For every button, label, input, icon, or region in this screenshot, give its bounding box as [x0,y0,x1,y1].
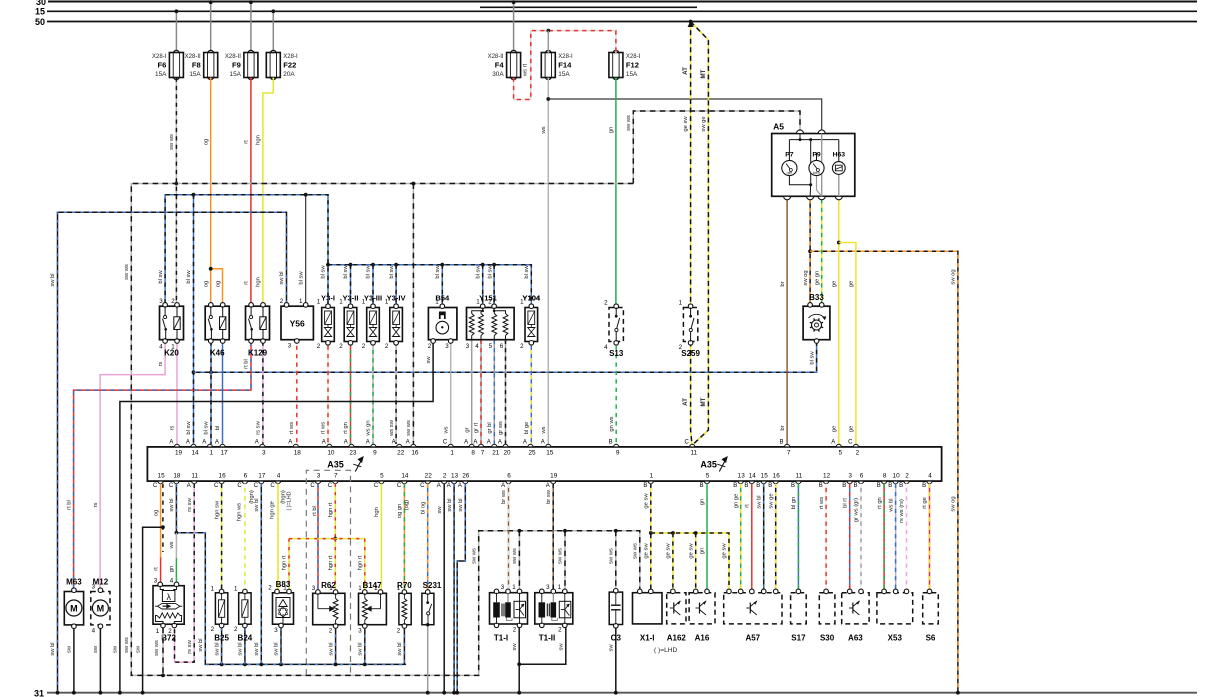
wire rs K20 pin1 to A19 [176,342,178,444]
junction F9/30 [249,0,253,4]
junction A13 31 [452,691,456,695]
svg-text:X28-I: X28-I [558,54,573,60]
svg-text:ge sw: ge sw [666,543,672,559]
wire gn from F12 to S13 [615,78,617,304]
svg-text:13: 13 [451,472,459,479]
svg-text:sw: sw [437,506,443,514]
svg-text:sw bl: sw bl [358,642,364,655]
svg-text:3: 3 [445,343,449,350]
svg-text:B: B [854,483,858,489]
svg-text:C: C [214,483,219,489]
svg-text:hgn rt: hgn rt [358,555,364,570]
wire hgn from F22 to K129 [263,78,273,304]
svg-text:4: 4 [475,343,479,350]
junction sw og at 31 [956,691,960,695]
junction busB B54 [440,263,444,267]
svg-text:4: 4 [604,344,608,351]
wire sw bl B25 pin2 [221,628,223,665]
svg-text:15A: 15A [558,71,570,78]
svg-text:A5: A5 [773,122,784,132]
svg-text:C: C [443,439,448,445]
svg-text:2: 2 [558,627,562,634]
junction sw bl net [220,663,224,667]
junction T1 31 [517,691,521,695]
wire sw T1 grounds [519,625,566,664]
svg-text:10: 10 [893,472,901,479]
junction hgn rt [333,537,337,541]
svg-text:ws: ws [169,541,175,549]
relay K129 [246,303,270,344]
bus 15 [35,7,1197,17]
wire busB drop [482,265,484,308]
svg-text:6: 6 [500,343,504,350]
wire ge sw manifold [651,533,729,592]
svg-text:A57: A57 [745,634,760,643]
junction sw at 31 [118,691,122,695]
wire bl sw from B33 [194,342,817,373]
svg-text:gn: gn [169,566,175,572]
wire gr ws B6 to A63 [860,484,862,592]
svg-text:F8: F8 [192,61,201,70]
svg-text:B: B [768,483,772,489]
svg-text:9: 9 [616,450,620,457]
svg-text:( )=LHD: ( )=LHD [287,491,293,510]
arrowhead AT bus [688,20,694,27]
svg-text:3: 3 [92,584,96,591]
svg-text:B25: B25 [214,634,229,643]
wire rt ge B4 to S6 [929,484,931,592]
svg-text:3: 3 [501,584,505,591]
svg-text:B: B [756,483,760,489]
svg-text:P7: P7 [785,152,794,159]
wire rt into B72 pin3 [160,558,162,585]
switch S6 [923,589,939,624]
motor M12 [91,588,110,629]
svg-text:19: 19 [550,472,558,479]
wire sw ws drop to T1-II pin1 [564,531,566,593]
svg-text:sw ws: sw ws [626,115,632,131]
svg-text:3: 3 [317,472,321,479]
switch S30 [819,589,835,624]
module A63 [842,589,869,624]
connector X1-I [633,589,663,624]
svg-text:14: 14 [191,450,199,457]
svg-text:3: 3 [466,343,470,350]
wire rs ws B2 to X53 [906,484,908,592]
wire to Y56 pin1 [305,195,307,304]
wire sw bl C17 down [260,484,262,665]
svg-text:hgn rt: hgn rt [282,555,288,570]
svg-text:sw ws: sw ws [609,548,615,564]
svg-text:ge: ge [849,426,855,432]
svg-text:sw ws: sw ws [633,543,639,559]
heater B25 [215,589,227,628]
svg-text:A: A [447,483,451,489]
svg-text:11: 11 [690,450,697,457]
junction sw og [808,249,812,253]
svg-text:T1-I: T1-I [494,634,508,643]
junction sw bl net [243,663,247,667]
svg-text:ge: ge [832,426,838,432]
svg-text:15: 15 [35,7,45,17]
svg-text:bl sw: bl sw [298,271,304,285]
svg-text:sw ws: sw ws [124,637,130,653]
wire sw C3 bottom [615,625,617,693]
svg-text:X28-II: X28-II [225,54,241,60]
wire busB drop [350,265,352,308]
junction A26 31 [455,691,459,695]
svg-text:gr rt: gr rt [474,422,480,433]
svg-text:15A: 15A [626,71,638,78]
wire sw ws drop to A35 A16 [412,184,414,444]
wire sw bl B24 pin2 [244,628,246,665]
junction B72 pin1 sw ws [161,674,165,678]
svg-text:gr ws: gr ws [498,421,504,435]
svg-text:2: 2 [329,628,333,635]
svg-text:5: 5 [839,450,843,457]
svg-text:gr bl: gr bl [487,422,493,433]
svg-text:3: 3 [546,584,550,591]
capacitor C3 [609,589,622,629]
svg-text:rt: rt [153,567,159,571]
svg-text:bl sw: bl sw [809,351,815,365]
svg-text:bl sw: bl sw [475,265,481,279]
svg-text:2: 2 [443,472,447,479]
svg-text:1: 1 [317,299,321,306]
svg-text:km/h: km/h [813,171,820,175]
svg-text:A: A [392,439,396,445]
svg-text:A35: A35 [700,460,717,470]
wire bl gn B11 to S17 [797,484,799,592]
svg-text:2: 2 [385,343,389,350]
svg-text:A: A [473,439,477,445]
wire sw bl R70 pin2 [403,626,405,664]
fuse F8 [185,2,218,80]
junction sw bl at 31 [56,691,60,695]
svg-text:1: 1 [156,628,160,635]
junction ge sw A16 [694,531,698,535]
svg-text:1: 1 [211,586,215,593]
wire og C15 to B72 pin3 [160,484,162,558]
svg-text:rt ws: rt ws [321,422,327,434]
wire ge sw AT line [690,22,692,304]
wire ws gn Y3-III to A9 [372,342,374,444]
svg-text:gn ws: gn ws [609,416,615,431]
svg-text:15A: 15A [189,71,201,78]
svg-text:5: 5 [489,343,493,350]
bus 31 [34,688,1197,697]
wire sw bl C18 down [176,484,406,665]
svg-text:2: 2 [856,450,860,457]
wire sw stub to ground [143,527,163,693]
svg-text:bl sw: bl sw [186,421,192,435]
svg-text:3: 3 [274,627,278,634]
svg-text:2: 2 [428,343,432,350]
wire hgn ws C6 to B24 [244,484,246,592]
wire sw M63 to 31 [73,629,75,693]
junction M63 31 [72,691,76,695]
svg-text:ws sw: ws sw [389,419,395,437]
wire to A5 pin top right [548,99,821,131]
svg-text:A: A [344,439,348,445]
svg-text:sw bl: sw bl [458,498,464,511]
bus 30 right segment [480,6,697,8]
svg-text:1: 1 [362,299,366,306]
wire sw optional C15 [162,484,164,552]
svg-text:hgn rt: hgn rt [328,502,334,517]
svg-text:S259: S259 [681,349,700,358]
wire sw ws riser to A5 [633,111,800,184]
svg-text:2: 2 [171,298,175,305]
connector X53 [877,589,913,624]
sensor B33 [803,303,830,344]
svg-text:8: 8 [883,472,887,479]
svg-text:AT: AT [682,398,689,406]
wire bl ge Y104 to A25 [530,342,532,444]
junction C3 drop [614,529,618,533]
solenoid valve Y3-IV [390,304,403,345]
svg-text:9: 9 [373,450,377,457]
svg-text:F22: F22 [283,61,296,70]
svg-text:bl sw: bl sw [366,265,372,279]
svg-text:31: 31 [34,688,44,697]
svg-text:R62: R62 [321,581,336,590]
module A57 [724,589,782,624]
svg-text:7: 7 [787,450,791,457]
svg-text:5: 5 [380,472,384,479]
svg-text:gn ge: gn ge [733,494,739,509]
junction C18 split [175,531,179,535]
svg-text:22: 22 [425,472,433,479]
svg-text:rpm: rpm [787,171,793,175]
svg-text:sw bl: sw bl [397,642,403,655]
svg-text:A: A [546,483,550,489]
wire rt bl K129 pin4 to M63 [74,342,251,590]
ignition coil T1-II [535,589,573,627]
fuse F12 [609,50,641,79]
svg-text:hgn ws: hgn ws [237,503,243,521]
svg-text:8: 8 [471,450,475,457]
svg-text:rt: rt [745,504,751,508]
wire bl sw drop to A35 A14 [193,195,195,444]
heater B24 [239,589,251,628]
svg-text:4: 4 [159,344,163,351]
wire rt gn Y3-II to A23 [350,342,352,444]
svg-text:rs sw: rs sw [187,497,193,511]
junction ge branch [837,241,841,245]
svg-text:A35: A35 [327,460,344,470]
svg-text:19: 19 [175,450,183,457]
svg-text:bl sw: bl sw [435,265,441,279]
svg-text:15: 15 [158,472,166,479]
svg-text:H63: H63 [833,152,846,159]
svg-text:16: 16 [219,472,227,479]
wire br from A5 to B7 [786,199,788,444]
svg-text:4: 4 [928,472,932,479]
svg-text:2: 2 [362,343,366,350]
svg-text:1: 1 [435,299,439,306]
svg-text:sw bl: sw bl [279,271,285,284]
svg-text:A: A [186,439,190,445]
wire sw og A5 to B33 pin1 [809,199,811,303]
wire sw A2 to 31 [443,484,445,693]
wire rt ws B12 to S30 [825,484,827,592]
wire og gn C14 to R70 [403,484,405,593]
wire sw M12 to 31 [99,629,101,693]
wire sw ge B16 to A57 [775,484,777,592]
svg-text:C: C [685,439,690,445]
wire busB drop [493,265,495,308]
svg-text:15A: 15A [155,71,167,78]
svg-text:sw bl: sw bl [254,642,260,655]
arrow symbol A35 right [717,456,728,472]
wire ws from F14 down to A35 A15 [547,78,549,444]
junction sw ws A16 drop [412,182,416,186]
junction T1 gnd [517,662,521,666]
svg-text:ge: ge [849,281,855,287]
svg-text:F12: F12 [626,61,639,70]
svg-text:sw bl: sw bl [254,498,260,511]
junction ws rt / F14 [546,29,550,33]
wire og from F8 [210,78,212,304]
junction og [209,267,213,271]
wire ws rt from F4 to F12 [514,31,616,100]
wire gr bl Y151-5 to A21 [493,340,495,444]
svg-text:rt ge: rt ge [922,497,928,509]
wire sw bl R62 pin2 [335,626,337,664]
svg-text:F14: F14 [558,61,572,70]
svg-text:sw ge: sw ge [768,493,774,508]
svg-text:og: og [215,281,221,287]
svg-text:B: B [643,483,647,489]
wire rs sw K129 pin2 to A3 [262,342,264,444]
svg-text:B24: B24 [238,634,253,643]
svg-text:rt: rt [244,281,250,285]
svg-text:K46: K46 [210,349,225,358]
svg-text:1: 1 [450,450,454,457]
wire sw B54 pin2 ground [120,340,433,693]
wire sw ws horizontal run [131,184,640,676]
svg-text:20: 20 [503,450,511,457]
svg-text:3: 3 [154,578,158,585]
svg-text:A: A [464,439,468,445]
junction F6/15 [175,9,179,13]
svg-text:rt bl: rt bl [66,500,72,510]
svg-text:Y3-I: Y3-I [321,294,335,303]
svg-text:15: 15 [761,472,769,479]
svg-text:Y3-III: Y3-III [364,294,382,303]
svg-text:14: 14 [749,472,757,479]
svg-text:M: M [70,604,78,614]
junction sw bl net [279,663,283,667]
svg-text:ws: ws [541,426,547,434]
svg-text:ge sw: ge sw [644,543,650,559]
wire rs K20 pin4 to M12 [100,342,165,590]
svg-text:B: B [899,483,903,489]
wire ws to B72 pin4 [175,533,177,558]
svg-text:A: A [541,439,545,445]
svg-text:sw: sw [512,643,518,651]
svg-text:5: 5 [706,472,710,479]
svg-text:A: A [255,439,259,445]
junction T1-I drop [518,529,522,533]
svg-text:MT: MT [700,69,707,78]
wire rt B14 to A57 [751,484,753,592]
wire busB drop [372,265,374,308]
junction busB Y151 p1 [481,263,485,267]
wire br sw A19 to T1-II [552,484,554,592]
svg-text:17: 17 [258,472,266,479]
svg-text:C: C [420,483,425,489]
svg-text:C: C [328,483,333,489]
relay K20 [160,303,184,344]
svg-text:hgn ge: hgn ge [270,501,276,519]
svg-text:X28-I: X28-I [283,54,298,60]
svg-text:rt ws: rt ws [289,422,295,434]
wire ws B54 pin3 to C1 [450,340,452,444]
wire sw bl B15 to A57 [763,484,765,592]
svg-text:1: 1 [476,299,480,306]
svg-text:1: 1 [299,298,303,305]
svg-text:C: C [374,483,379,489]
wire br ws A6 to T1-I [508,484,510,592]
svg-text:br: br [780,281,786,286]
svg-text:F9: F9 [232,61,241,70]
svg-text:bl sw: bl sw [343,265,349,279]
svg-text:MT: MT [700,397,707,406]
potentiometer B147 [359,590,387,629]
wire busB drop [441,265,443,308]
wire hgn rt C7 down [334,484,336,539]
horn B54 [428,304,457,343]
svg-text:rs: rs [170,425,176,430]
svg-text:B33: B33 [809,293,824,302]
fuse F22 [266,11,298,79]
svg-text:sw ws: sw ws [124,264,130,280]
svg-text:C: C [169,483,174,489]
svg-text:A: A [187,483,191,489]
svg-text:S17: S17 [791,634,806,643]
svg-text:sw ws: sw ws [154,640,160,656]
solenoid valve Y104 [525,304,538,345]
fuse F9 [225,2,258,80]
svg-text:A: A [322,439,326,445]
svg-text:Y3-II: Y3-II [342,294,358,303]
svg-text:3: 3 [358,628,362,635]
svg-text:br ws: br ws [501,490,507,504]
wire gn ge B13 to A57 [740,484,742,592]
svg-text:23: 23 [349,450,357,457]
svg-text:2: 2 [317,343,321,350]
svg-text:A: A [288,439,292,445]
svg-text:sw bl: sw bl [274,642,280,655]
svg-text:bl sw: bl sw [204,421,210,435]
svg-text:18: 18 [294,450,302,457]
svg-text:rt gn: rt gn [343,422,349,434]
sensor B83 [273,589,294,628]
wire sw ws drop to C3 [615,531,617,592]
svg-text:M: M [97,604,105,614]
svg-text:1: 1 [679,300,683,307]
svg-text:B: B [819,483,823,489]
svg-text:K129: K129 [248,349,268,358]
wire ws bl B10 to X53 [895,484,897,592]
svg-text:sw bl: sw bl [238,642,244,655]
svg-text:A16: A16 [695,634,710,643]
wire hgn rt to B147 pin1 [364,539,366,593]
svg-text:3: 3 [312,585,316,592]
lambda sensor B72 [153,582,184,628]
